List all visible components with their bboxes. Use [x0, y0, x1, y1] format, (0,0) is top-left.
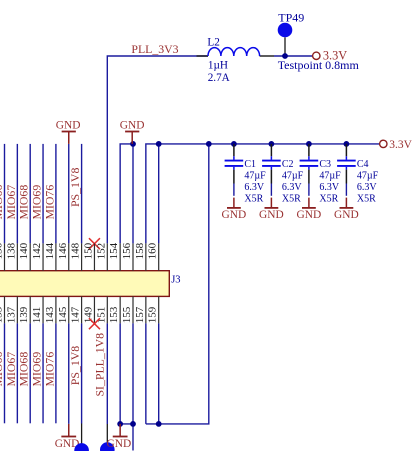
pin 156	[132, 243, 134, 270]
svg-text:147: 147	[70, 306, 82, 323]
svg-text:6.3V: 6.3V	[319, 182, 340, 193]
svg-text:149: 149	[82, 306, 94, 323]
ground under C3	[297, 198, 322, 221]
pin 142	[42, 243, 44, 270]
pin 157	[145, 296, 147, 323]
svg-text:C2: C2	[282, 159, 294, 170]
inductor L2	[208, 48, 260, 56]
pin 145	[68, 296, 70, 323]
svg-text:GND: GND	[107, 438, 132, 450]
pin 150	[93, 243, 95, 270]
wire pin 159 down	[158, 323, 160, 424]
svg-text:146: 146	[57, 242, 69, 259]
wire pin 153 down to GND	[120, 323, 133, 424]
pin 144	[55, 243, 57, 270]
junction pin 153	[117, 421, 123, 427]
svg-text:154: 154	[108, 242, 120, 259]
svg-text:139: 139	[18, 306, 30, 323]
svg-text:GND: GND	[259, 209, 284, 221]
svg-text:150: 150	[82, 242, 94, 259]
pin 143	[55, 296, 57, 323]
testpoint TP49	[278, 23, 293, 56]
wire pin 158 up to 3.3V rail	[146, 144, 380, 244]
svg-text:152: 152	[95, 243, 107, 260]
pin 139	[29, 296, 31, 323]
pin 138	[16, 243, 18, 270]
svg-text:6.3V: 6.3V	[357, 182, 378, 193]
capacitor C2	[262, 144, 281, 196]
svg-text:3.3V: 3.3V	[323, 48, 347, 62]
svg-text:145: 145	[57, 306, 69, 323]
pin 147	[81, 296, 83, 323]
wire pin 137 down	[16, 323, 18, 423]
wire pin 147 down (PS_1V8)	[81, 323, 83, 423]
pin 148	[81, 243, 83, 270]
svg-text:PS_1V8: PS_1V8	[68, 346, 82, 385]
wire pin 145 down to GND	[68, 323, 70, 424]
junction pin 155	[130, 421, 136, 427]
junction at TP49	[282, 53, 288, 59]
no-connect X pin 149	[89, 318, 100, 329]
wire rail down right side to bottom row	[146, 144, 209, 424]
power symbol 3.3V (rail)	[380, 140, 387, 147]
junction rail / C3	[306, 141, 312, 147]
inductor L2 pins	[197, 55, 209, 57]
pin 151	[106, 296, 108, 323]
svg-text:TP49: TP49	[278, 10, 304, 24]
pin 160	[158, 243, 160, 270]
svg-text:153: 153	[108, 306, 120, 323]
wire pin 155 down	[132, 323, 134, 450]
svg-text:GND: GND	[334, 209, 359, 221]
pin 149	[93, 296, 95, 323]
connector J3 body	[0, 271, 169, 297]
ground (top, pin 146)	[56, 120, 81, 144]
pin 136	[4, 243, 6, 270]
pin 137	[16, 296, 18, 323]
svg-text:135: 135	[0, 306, 5, 323]
svg-text:138: 138	[5, 242, 17, 259]
svg-text:143: 143	[44, 306, 56, 323]
wire pin 138 up	[16, 144, 18, 244]
svg-text:GND: GND	[56, 120, 81, 132]
no-connect X pin 150	[89, 238, 100, 249]
svg-text:SI_PLL_1V8: SI_PLL_1V8	[93, 333, 107, 397]
svg-text:X5R: X5R	[319, 194, 338, 205]
wire pin 148 up	[81, 144, 83, 244]
testpoint (bottom, pin 151)	[100, 424, 115, 451]
pin 152	[106, 243, 108, 270]
svg-text:GND: GND	[120, 120, 145, 132]
svg-text:156: 156	[121, 242, 133, 259]
wire pin 160 up	[158, 144, 160, 244]
wire pin 142 up	[42, 144, 44, 244]
wire PLL_3V3 from pin 152 up and right to L2	[107, 56, 208, 243]
junction pin 160 / rail	[156, 141, 162, 147]
wire pin 141 down	[42, 323, 44, 423]
pin 135	[4, 296, 6, 323]
ground under C4	[334, 198, 359, 221]
svg-text:47µF: 47µF	[319, 171, 341, 182]
svg-text:X5R: X5R	[357, 194, 376, 205]
svg-text:141: 141	[31, 307, 43, 324]
svg-text:MIO76: MIO76	[42, 185, 56, 220]
ground under C1	[222, 198, 247, 221]
wire pin 136 up	[4, 144, 6, 244]
svg-text:144: 144	[44, 242, 56, 259]
pin 140	[29, 243, 31, 270]
svg-text:140: 140	[18, 242, 30, 259]
wire pin 151 down (SI_PLL_1V8)	[106, 323, 108, 424]
ground (top, pins 154/156)	[120, 120, 145, 144]
pin 154	[119, 243, 121, 270]
svg-text:C4: C4	[357, 159, 369, 170]
svg-text:6.3V: 6.3V	[244, 182, 265, 193]
capacitor C1	[225, 144, 244, 196]
svg-text:157: 157	[134, 306, 146, 323]
wire pin 157 down to 3.3V row	[145, 323, 147, 424]
svg-text:J3: J3	[171, 275, 180, 286]
junction pin 159	[156, 421, 162, 427]
wire pin 143 down	[55, 323, 57, 423]
pin 153	[119, 296, 121, 323]
ground under C2	[259, 198, 284, 221]
ground (bottom, pin 145)	[55, 424, 80, 450]
junction rail / C4	[344, 141, 350, 147]
svg-text:GND: GND	[297, 209, 322, 221]
junction rail / C2	[269, 141, 275, 147]
junction rail / right vertical	[206, 141, 212, 147]
svg-text:142: 142	[31, 243, 43, 260]
wire pin 154 up to GND	[120, 144, 133, 244]
svg-text:47µF: 47µF	[244, 171, 266, 182]
svg-text:136: 136	[0, 242, 5, 259]
pin 159	[158, 296, 160, 323]
wire pin 144 up	[55, 144, 57, 244]
wire L2 to 3.3V symbol	[274, 55, 312, 57]
svg-text:155: 155	[121, 306, 133, 323]
wire pin 146 up	[68, 144, 70, 244]
pin 158	[145, 243, 147, 270]
svg-text:159: 159	[147, 306, 159, 323]
pin 146	[68, 243, 70, 270]
svg-text:160: 160	[147, 242, 159, 259]
svg-text:1µH: 1µH	[208, 59, 228, 71]
capacitor C4	[337, 144, 356, 196]
svg-text:Testpoint 0.8mm: Testpoint 0.8mm	[278, 58, 360, 72]
wire pin 135 down	[4, 323, 6, 423]
svg-text:C3: C3	[319, 159, 331, 170]
svg-text:X5R: X5R	[282, 194, 301, 205]
svg-text:PS_1V8: PS_1V8	[68, 168, 82, 207]
svg-text:148: 148	[70, 242, 82, 259]
svg-text:3.3V: 3.3V	[389, 139, 412, 151]
wire pin 139 down	[29, 323, 31, 423]
wire pin 156 up to GND	[132, 144, 134, 244]
capacitor C3	[300, 144, 319, 196]
junction rail / C1	[231, 141, 237, 147]
svg-text:C1: C1	[244, 159, 256, 170]
power symbol 3.3V (top)	[313, 52, 320, 59]
pin 155	[132, 296, 134, 323]
testpoint (bottom, pin 147)	[74, 424, 89, 451]
svg-text:PLL_3V3: PLL_3V3	[131, 42, 178, 56]
svg-text:47µF: 47µF	[282, 171, 304, 182]
ground (bottom, pin 153)	[107, 424, 132, 450]
svg-text:6.3V: 6.3V	[282, 182, 303, 193]
svg-text:GND: GND	[222, 209, 247, 221]
svg-text:X5R: X5R	[244, 194, 263, 205]
wire pin 140 up	[29, 144, 31, 244]
svg-text:158: 158	[134, 242, 146, 259]
svg-text:L2: L2	[207, 36, 219, 48]
svg-text:2.7A: 2.7A	[208, 72, 230, 84]
pin 141	[42, 296, 44, 323]
svg-text:MIO76: MIO76	[42, 352, 56, 387]
svg-text:47µF: 47µF	[357, 171, 379, 182]
svg-text:137: 137	[5, 306, 17, 323]
junction GND group	[130, 141, 136, 147]
